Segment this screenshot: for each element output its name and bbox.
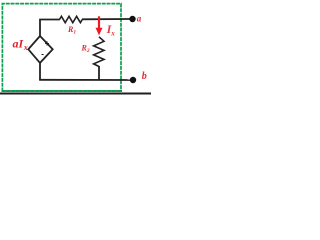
- background: [0, 0, 151, 98]
- dependent source diamond: [28, 36, 52, 63]
- wire: top rail right segment to terminal a: [82, 18, 130, 20]
- svg-text:-: -: [41, 50, 44, 59]
- svg-text:a: a: [137, 13, 142, 23]
- terminal dot a: [129, 16, 135, 22]
- terminal dot b: [130, 77, 136, 83]
- bottom green dashed rule (full width): [2, 90, 123, 92]
- wire: bottom rail to terminal b: [39, 79, 131, 81]
- bottom black underline: [2, 90, 122, 92]
- wire: top rail left segment: [39, 19, 60, 21]
- current arrow Ix (red): [96, 16, 103, 35]
- wire: diamond bottom to bottom rail: [39, 63, 41, 81]
- svg-text:+: +: [45, 39, 50, 48]
- wire: top-left vertical from top rail to diamond: [39, 20, 41, 37]
- svg-text:b: b: [142, 71, 147, 82]
- bottom gray rule: [0, 93, 151, 95]
- resistor R1 zigzag: [60, 16, 83, 22]
- resistor R2 zigzag (vertical): [94, 37, 104, 67]
- wire: R2 bottom to bottom rail: [98, 66, 100, 80]
- dashed green enclosure box: [2, 4, 121, 92]
